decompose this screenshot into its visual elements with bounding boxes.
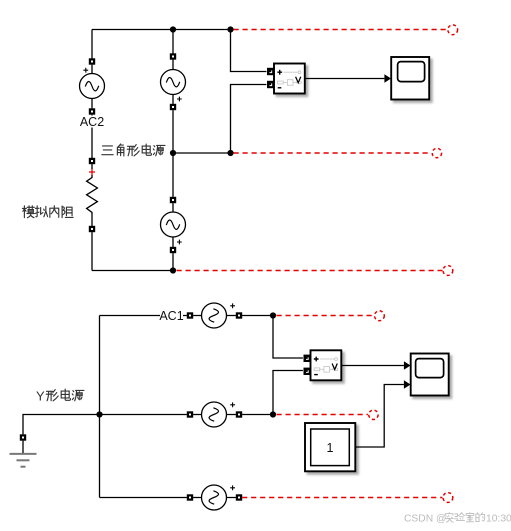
- label AC1: [159, 309, 183, 323]
- watermark CSDN: [404, 513, 511, 525]
- node D branch1: [270, 312, 276, 318]
- wire mid branch upper (rail to source2): [172, 30, 174, 54]
- unconnected terminator F: [443, 493, 453, 503]
- node E branch2: [270, 411, 276, 417]
- scope Scope2: [411, 354, 449, 396]
- AC source C (horizontal): [187, 485, 242, 510]
- wire bottom rail net C: [92, 270, 173, 272]
- scope Scope1: [391, 57, 429, 100]
- wire sourceB to node E: [242, 414, 273, 416]
- svg-text:1: 1: [327, 441, 334, 455]
- unconnected net D dashed: [277, 315, 375, 317]
- wire ground tap: [23, 415, 100, 435]
- node mid rail left: [170, 150, 176, 156]
- scope2 input2 arrow: [404, 380, 411, 388]
- scope1 input arrow: [384, 74, 391, 82]
- svg-text:Y: Y: [36, 389, 45, 404]
- unconnected terminator C: [443, 266, 453, 276]
- wire constant to scope2 input2: [356, 385, 404, 448]
- wire V2 minus input: [273, 371, 303, 415]
- AC source 2 (flipped): [161, 53, 186, 110]
- wire left branch upper (rail to AC2): [91, 30, 93, 59]
- wire branch 3: [100, 497, 187, 499]
- voltage measurement U2: [304, 350, 342, 380]
- voltage measurement U1: [267, 64, 305, 94]
- unconnected terminator D: [375, 311, 385, 321]
- node bottom rail: [170, 267, 176, 273]
- wire branch 1 to AC1: [100, 315, 187, 317]
- wire U2 output to scope2: [342, 365, 404, 367]
- unconnected net F dashed: [242, 497, 442, 499]
- wire V2 plus input: [273, 316, 303, 359]
- svg-text:10:30: 10:30: [486, 514, 511, 525]
- wire AC2 to resistor: [91, 115, 93, 158]
- unconnected terminator A: [448, 25, 458, 35]
- annotation 模拟内阻: [22, 206, 73, 218]
- node mid rail / V tap: [227, 150, 233, 156]
- node top rail / mid branch: [170, 26, 176, 32]
- AC source B (horizontal): [187, 402, 242, 427]
- AC source AC1 (horizontal): [187, 303, 242, 328]
- wire V1 plus input: [231, 30, 267, 72]
- ground symbol: [10, 441, 37, 467]
- ground port: [20, 434, 26, 440]
- wire V1 minus input: [231, 85, 267, 154]
- unconnected terminator B: [432, 148, 441, 157]
- unconnected net E dashed: [277, 414, 369, 416]
- unconnected net B dashed: [234, 152, 432, 154]
- wire top rail net A: [92, 29, 231, 31]
- AC source AC2: [80, 58, 105, 114]
- wire resistor to bottom rail: [91, 232, 93, 270]
- svg-text:AC2: AC2: [80, 115, 104, 129]
- node trunk branch2: [96, 411, 102, 417]
- unconnected net A dashed: [234, 29, 448, 31]
- AC source 3 (flipped): [161, 153, 186, 253]
- scope2 input1 arrow: [404, 361, 411, 369]
- wire source3 to bottom rail: [172, 253, 174, 270]
- resistor R (模拟内阻): [87, 158, 98, 232]
- annotation Y形电源: [36, 389, 84, 404]
- annotation 三角形电源: [102, 144, 165, 156]
- wire Y trunk: [99, 316, 101, 498]
- svg-text:AC1: AC1: [159, 309, 183, 323]
- wire branch 2: [100, 414, 187, 416]
- wire mid rail net B: [173, 152, 231, 154]
- wire AC1 to node D: [242, 315, 273, 317]
- constant block K1: [305, 423, 355, 471]
- wire U1 output to scope1: [305, 78, 384, 80]
- node top rail / V tap: [227, 26, 233, 32]
- label AC2: [80, 115, 104, 129]
- unconnected terminator E: [369, 410, 378, 419]
- svg-text:CSDN @: CSDN @: [404, 514, 447, 525]
- wire source2 to mid rail: [172, 110, 174, 153]
- unconnected net C dashed: [177, 270, 443, 272]
